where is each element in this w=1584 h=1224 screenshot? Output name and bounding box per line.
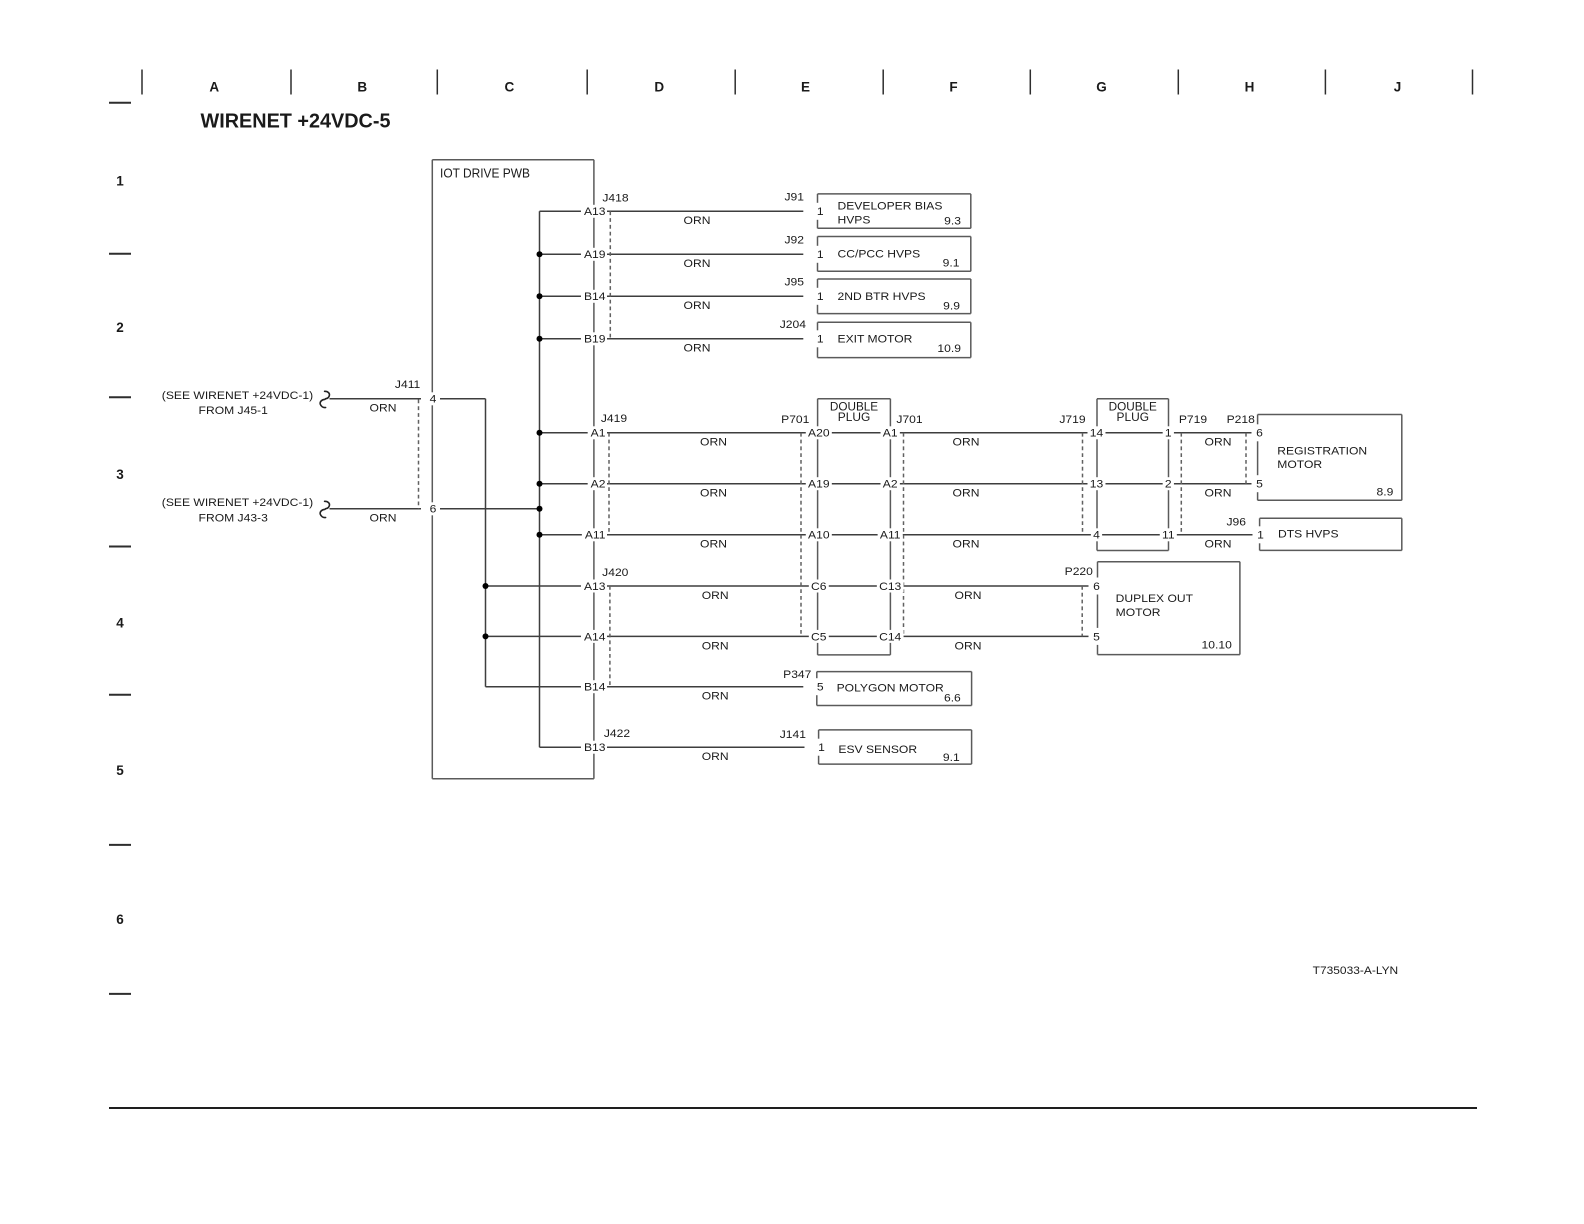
svg-text:J420: J420 <box>602 567 628 579</box>
svg-text:FROM J45-1: FROM J45-1 <box>199 405 268 417</box>
svg-text:J419: J419 <box>601 413 627 425</box>
svg-text:J95: J95 <box>784 276 804 288</box>
svg-text:J: J <box>1394 79 1402 94</box>
svg-text:ORN: ORN <box>370 513 397 525</box>
svg-text:A13: A13 <box>584 206 606 218</box>
svg-text:2ND BTR HVPS: 2ND BTR HVPS <box>838 291 926 303</box>
svg-text:1: 1 <box>817 206 824 218</box>
svg-text:A14: A14 <box>584 631 606 643</box>
svg-text:ORN: ORN <box>955 590 982 602</box>
svg-text:DUPLEX OUT: DUPLEX OUT <box>1116 593 1194 605</box>
svg-text:C13: C13 <box>879 581 901 593</box>
svg-text:ORN: ORN <box>1205 539 1232 551</box>
svg-text:A20: A20 <box>808 428 830 440</box>
svg-text:B14: B14 <box>584 682 606 694</box>
svg-text:ORN: ORN <box>953 488 980 500</box>
svg-text:H: H <box>1245 79 1255 94</box>
svg-text:MOTOR: MOTOR <box>1277 459 1322 471</box>
svg-text:ORN: ORN <box>684 300 711 312</box>
svg-text:ORN: ORN <box>953 437 980 449</box>
svg-text:ORN: ORN <box>702 640 729 652</box>
svg-text:T735033-A-LYN: T735033-A-LYN <box>1313 965 1399 977</box>
svg-text:1: 1 <box>116 174 124 189</box>
svg-text:1: 1 <box>818 742 825 754</box>
svg-text:J418: J418 <box>602 193 628 205</box>
svg-text:POLYGON MOTOR: POLYGON MOTOR <box>837 682 944 694</box>
svg-text:B13: B13 <box>584 742 606 754</box>
svg-text:1: 1 <box>817 249 824 261</box>
svg-text:A11: A11 <box>585 530 606 542</box>
svg-text:5: 5 <box>116 763 124 778</box>
svg-text:G: G <box>1096 79 1107 94</box>
svg-text:A19: A19 <box>808 479 830 491</box>
svg-text:6: 6 <box>430 504 437 516</box>
svg-text:C14: C14 <box>879 631 901 643</box>
svg-text:5: 5 <box>1093 631 1100 643</box>
svg-text:1: 1 <box>1257 530 1264 542</box>
svg-text:E: E <box>801 79 810 94</box>
svg-text:J719: J719 <box>1059 414 1085 426</box>
svg-text:10.9: 10.9 <box>937 343 961 355</box>
svg-text:C5: C5 <box>811 631 826 643</box>
svg-text:A10: A10 <box>808 530 830 542</box>
svg-text:EXIT MOTOR: EXIT MOTOR <box>838 333 913 345</box>
svg-text:J701: J701 <box>896 414 922 426</box>
svg-text:ORN: ORN <box>702 751 729 763</box>
svg-text:9.9: 9.9 <box>943 300 960 312</box>
svg-text:1: 1 <box>1165 428 1172 440</box>
svg-text:IOT DRIVE PWB: IOT DRIVE PWB <box>440 167 530 181</box>
svg-text:MOTOR: MOTOR <box>1116 607 1161 619</box>
svg-text:C: C <box>505 79 515 94</box>
svg-text:ESV SENSOR: ESV SENSOR <box>838 744 917 756</box>
svg-text:11: 11 <box>1162 530 1175 542</box>
svg-text:ORN: ORN <box>700 539 727 551</box>
svg-text:PLUG: PLUG <box>1117 410 1150 424</box>
svg-text:CC/PCC HVPS: CC/PCC HVPS <box>838 248 921 260</box>
svg-text:A: A <box>209 79 219 94</box>
svg-text:ORN: ORN <box>684 343 711 355</box>
svg-text:ORN: ORN <box>702 691 729 703</box>
svg-text:ORN: ORN <box>1205 437 1232 449</box>
svg-text:2: 2 <box>116 320 124 335</box>
svg-text:A13: A13 <box>584 581 606 593</box>
svg-text:PLUG: PLUG <box>838 410 871 424</box>
svg-text:9.1: 9.1 <box>943 752 960 764</box>
svg-text:REGISTRATION: REGISTRATION <box>1277 446 1367 458</box>
svg-text:ORN: ORN <box>700 437 727 449</box>
svg-text:P701: P701 <box>781 414 809 426</box>
svg-text:P347: P347 <box>783 669 811 681</box>
svg-text:6.6: 6.6 <box>944 692 961 704</box>
svg-text:ORN: ORN <box>370 403 397 415</box>
svg-text:9.1: 9.1 <box>943 257 960 269</box>
svg-text:A19: A19 <box>584 249 606 261</box>
svg-text:A2: A2 <box>883 479 898 491</box>
svg-text:ORN: ORN <box>684 258 711 270</box>
svg-text:5: 5 <box>817 682 824 694</box>
svg-text:FROM J43-3: FROM J43-3 <box>199 512 268 524</box>
svg-text:2: 2 <box>1165 479 1172 491</box>
svg-text:P220: P220 <box>1065 566 1093 578</box>
svg-text:13: 13 <box>1090 479 1103 491</box>
svg-text:A2: A2 <box>591 479 606 491</box>
svg-text:J422: J422 <box>604 728 630 740</box>
svg-text:J91: J91 <box>784 191 804 203</box>
svg-text:HVPS: HVPS <box>838 214 871 226</box>
svg-text:6: 6 <box>116 912 124 927</box>
svg-text:J204: J204 <box>780 319 806 331</box>
svg-text:ORN: ORN <box>700 488 727 500</box>
svg-text:J96: J96 <box>1226 516 1246 528</box>
svg-text:(SEE WIRENET +24VDC-1): (SEE WIRENET +24VDC-1) <box>162 497 313 509</box>
svg-text:A1: A1 <box>591 428 606 440</box>
svg-text:B14: B14 <box>584 291 606 303</box>
svg-text:ORN: ORN <box>1205 488 1232 500</box>
svg-text:A11: A11 <box>880 530 901 542</box>
svg-text:J411: J411 <box>395 379 420 391</box>
svg-text:A1: A1 <box>883 428 898 440</box>
svg-text:ORN: ORN <box>953 539 980 551</box>
svg-text:D: D <box>654 79 664 94</box>
svg-text:F: F <box>949 79 957 94</box>
svg-text:DTS HVPS: DTS HVPS <box>1278 529 1339 541</box>
svg-text:6: 6 <box>1093 581 1100 593</box>
svg-text:J141: J141 <box>780 729 806 741</box>
svg-text:8.9: 8.9 <box>1377 487 1394 499</box>
svg-text:3: 3 <box>116 467 124 482</box>
svg-text:DEVELOPER BIAS: DEVELOPER BIAS <box>838 200 943 212</box>
svg-text:WIRENET +24VDC-5: WIRENET +24VDC-5 <box>201 111 391 133</box>
svg-text:9.3: 9.3 <box>944 215 961 227</box>
svg-text:P218: P218 <box>1227 414 1255 426</box>
svg-text:14: 14 <box>1090 428 1103 440</box>
svg-text:ORN: ORN <box>955 640 982 652</box>
svg-text:C6: C6 <box>811 581 826 593</box>
svg-text:10.10: 10.10 <box>1202 639 1232 651</box>
svg-text:4: 4 <box>430 394 437 406</box>
svg-text:4: 4 <box>116 615 124 630</box>
svg-text:B19: B19 <box>584 334 606 346</box>
svg-text:ORN: ORN <box>684 215 711 227</box>
svg-text:4: 4 <box>1093 530 1100 542</box>
svg-text:1: 1 <box>817 334 824 346</box>
svg-text:6: 6 <box>1256 428 1263 440</box>
svg-text:B: B <box>357 79 367 94</box>
svg-text:J92: J92 <box>784 234 804 246</box>
svg-text:P719: P719 <box>1179 414 1207 426</box>
svg-text:(SEE WIRENET +24VDC-1): (SEE WIRENET +24VDC-1) <box>162 390 313 402</box>
svg-text:ORN: ORN <box>702 590 729 602</box>
svg-text:1: 1 <box>817 291 824 303</box>
svg-text:5: 5 <box>1256 479 1263 491</box>
